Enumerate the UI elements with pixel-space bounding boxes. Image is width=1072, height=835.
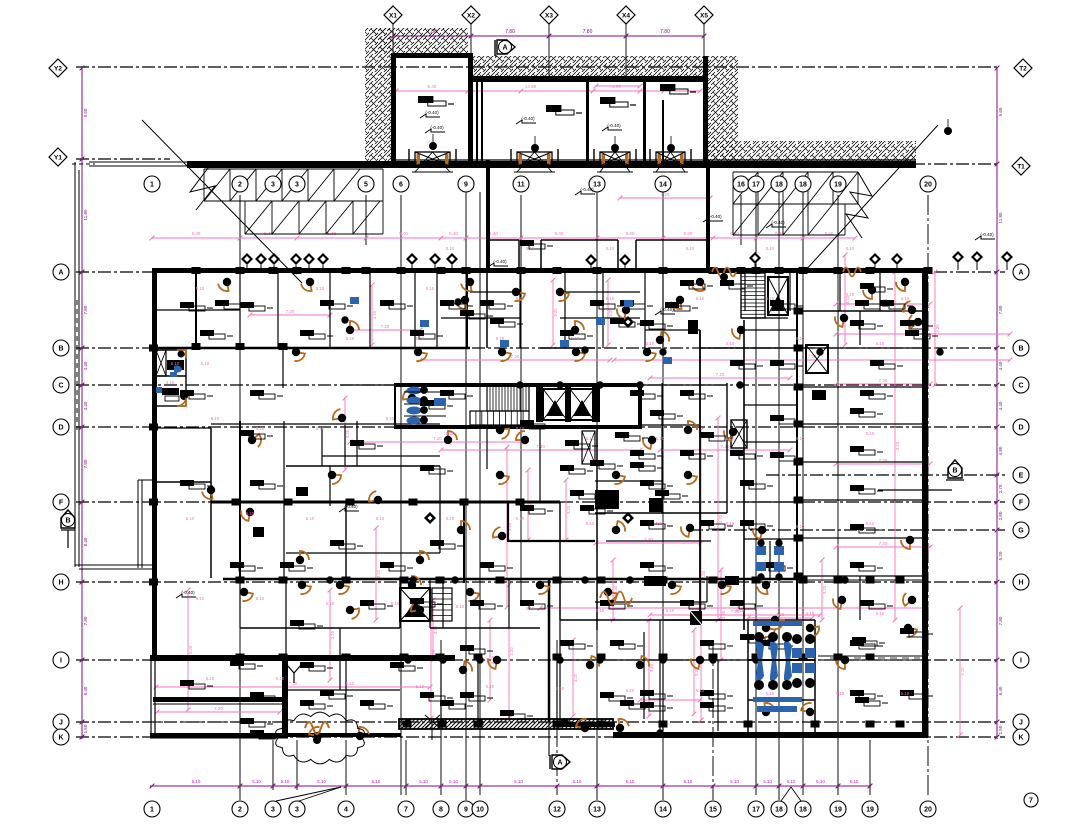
grid line E	[766, 474, 1005, 476]
grid line col 19b	[869, 740, 871, 795]
svg-text:(-0.40): (-0.40)	[708, 214, 722, 219]
dimension pink annex	[396, 90, 700, 92]
closet block 1	[595, 490, 619, 509]
svg-text:B: B	[58, 345, 63, 352]
orange double door pair H corridor	[600, 592, 632, 605]
svg-text:4: 4	[344, 806, 348, 813]
annex partition x587	[586, 82, 589, 162]
svg-text:5.10: 5.10	[586, 436, 595, 441]
junction dots	[455, 299, 461, 305]
annex window 1	[415, 152, 450, 166]
svg-text:9: 9	[464, 806, 468, 813]
grid diamonds left	[49, 59, 67, 77]
svg-text:5.10: 5.10	[386, 416, 395, 421]
annex partition x478 double	[476, 80, 478, 162]
svg-text:5.10: 5.10	[211, 416, 220, 421]
annex furniture 2	[546, 105, 561, 112]
elevator mid-right	[806, 345, 828, 373]
svg-text:2.70: 2.70	[998, 484, 1003, 493]
canopy truss right upper	[733, 171, 858, 173]
svg-text:A: A	[502, 45, 507, 52]
svg-text:(-0.40): (-0.40)	[493, 259, 507, 264]
svg-text:5.10: 5.10	[876, 611, 885, 616]
svg-text:6: 6	[399, 181, 403, 188]
dimension pink upper	[152, 237, 855, 239]
svg-text:5.10: 5.10	[449, 779, 458, 784]
svg-text:5.10: 5.10	[763, 779, 772, 784]
hatch band above annex rooms	[470, 56, 708, 80]
grid line A	[76, 271, 1005, 273]
grid bubbles right column	[1013, 264, 1029, 280]
svg-text:5.10: 5.10	[416, 336, 425, 341]
svg-text:4.40: 4.40	[83, 361, 88, 370]
door arcs	[218, 282, 229, 291]
svg-text:5.10: 5.10	[656, 436, 665, 441]
svg-text:9.60: 9.60	[998, 107, 1003, 116]
annex furniture 4	[660, 84, 675, 91]
svg-text:T2: T2	[1019, 66, 1027, 73]
svg-text:5.10: 5.10	[346, 681, 355, 686]
canopy truss right lower	[733, 203, 845, 205]
svg-text:5.10: 5.10	[496, 336, 505, 341]
annex partition x644	[643, 82, 646, 162]
svg-text:17: 17	[752, 181, 760, 188]
svg-text:5.10: 5.10	[196, 286, 205, 291]
section marker A top	[497, 40, 515, 54]
core top wall	[395, 383, 642, 387]
grid line col 17	[755, 192, 757, 795]
svg-text:1.50: 1.50	[998, 725, 1003, 734]
dimension pink interior verticals	[187, 590, 189, 710]
notch outline 1	[490, 239, 519, 241]
svg-text:5.10: 5.10	[372, 779, 381, 784]
svg-text:5.10: 5.10	[766, 246, 775, 251]
svg-text:5.10: 5.10	[516, 516, 525, 521]
svg-text:2.80: 2.80	[998, 511, 1003, 520]
svg-text:5.10: 5.10	[836, 691, 845, 696]
svg-text:5.40: 5.40	[684, 231, 693, 236]
svg-text:5.10: 5.10	[556, 686, 565, 691]
svg-text:2: 2	[238, 181, 242, 188]
svg-text:Y1: Y1	[54, 155, 62, 162]
toilet pair right wing	[756, 546, 766, 555]
interior vertical walls	[195, 272, 197, 348]
lower-left block left wall	[150, 655, 152, 738]
svg-text:19: 19	[834, 181, 842, 188]
svg-text:4.40: 4.40	[998, 361, 1003, 370]
grid line I	[76, 659, 1005, 661]
hatch band left of annex	[365, 28, 392, 162]
svg-text:B: B	[952, 468, 957, 475]
toilet block center	[407, 387, 422, 395]
notch outline 2	[541, 239, 618, 241]
svg-text:7.20: 7.20	[776, 612, 785, 617]
svg-text:5.10: 5.10	[571, 336, 580, 341]
canopy break mark left	[190, 168, 215, 210]
svg-text:5.10: 5.10	[736, 608, 745, 613]
svg-text:5.10: 5.10	[346, 336, 355, 341]
svg-text:5.10: 5.10	[276, 676, 285, 681]
svg-text:3.20: 3.20	[573, 673, 578, 682]
svg-text:F: F	[59, 499, 64, 506]
svg-text:19: 19	[866, 806, 874, 813]
svg-text:7.80: 7.80	[505, 29, 515, 35]
grid diamonds right	[1014, 59, 1032, 77]
closet block 7	[725, 576, 739, 585]
svg-text:5.10: 5.10	[516, 296, 525, 301]
annex window dots	[430, 143, 437, 150]
svg-text:5.10: 5.10	[526, 606, 535, 611]
svg-text:3.10: 3.10	[166, 380, 175, 385]
svg-text:20: 20	[924, 806, 932, 813]
bottom wall x282-399	[280, 733, 401, 737]
svg-text:3.20: 3.20	[822, 585, 827, 594]
orange window wall A right2	[843, 268, 861, 277]
svg-text:5.10: 5.10	[866, 431, 875, 436]
grid line H	[76, 581, 1005, 583]
svg-text:5.40: 5.40	[192, 231, 201, 236]
grid line T1 left	[76, 158, 170, 160]
closet block 3	[644, 576, 666, 586]
svg-text:C: C	[1018, 382, 1023, 389]
grid line col 3	[272, 740, 274, 790]
canopy truss left upper	[204, 168, 383, 170]
svg-text:5.10: 5.10	[316, 286, 325, 291]
svg-text:5.10: 5.10	[666, 608, 675, 613]
grid line col 20	[927, 195, 929, 795]
svg-text:X3: X3	[545, 13, 553, 20]
annex sill line	[396, 159, 916, 161]
wall core x640	[638, 383, 642, 429]
svg-text:X1: X1	[389, 13, 397, 20]
svg-text:(-0.40): (-0.40)	[425, 110, 439, 115]
svg-text:1: 1	[150, 806, 154, 813]
grid line col 3b	[296, 740, 298, 790]
wall I line	[150, 655, 455, 661]
svg-text:5.10: 5.10	[446, 516, 455, 521]
wall left x152	[152, 268, 157, 660]
svg-text:5.10: 5.10	[246, 511, 255, 516]
svg-text:15: 15	[709, 806, 717, 813]
svg-text:17: 17	[752, 806, 760, 813]
closet block 5	[296, 487, 308, 496]
svg-text:D: D	[58, 424, 63, 431]
dimension pink interior horizontals	[614, 359, 1010, 361]
svg-text:7.20: 7.20	[381, 324, 390, 329]
grid line T2	[76, 66, 1000, 68]
svg-text:(-0.40): (-0.40)	[521, 116, 535, 121]
annex partition x664	[662, 100, 664, 162]
grid line K	[76, 736, 1005, 738]
svg-text:7.80: 7.80	[583, 29, 593, 35]
property double line vertical	[74, 162, 76, 567]
svg-text:5.10: 5.10	[326, 601, 335, 606]
svg-text:5.10: 5.10	[486, 684, 495, 689]
section marker B right	[948, 460, 962, 478]
stair main treads	[487, 385, 529, 411]
svg-text:18: 18	[775, 181, 783, 188]
svg-text:(-0.40): (-0.40)	[344, 504, 358, 509]
svg-text:5.10: 5.10	[192, 779, 201, 784]
svg-text:7.80: 7.80	[83, 459, 88, 468]
wall J step right	[560, 722, 615, 727]
svg-text:5.20: 5.20	[998, 551, 1003, 560]
svg-text:3.20: 3.20	[553, 308, 558, 317]
furniture symbols	[215, 300, 229, 306]
svg-text:5.10: 5.10	[806, 611, 815, 616]
toilet block left	[155, 350, 186, 406]
hatch band right of annex	[706, 56, 738, 162]
svg-text:1: 1	[150, 181, 154, 188]
svg-text:5.10: 5.10	[171, 361, 180, 366]
annex window 2	[517, 152, 552, 166]
lower-left block bottom wall	[150, 733, 288, 739]
svg-text:5.10: 5.10	[726, 521, 735, 526]
svg-text:(-0.40): (-0.40)	[607, 123, 621, 128]
svg-text:5.10: 5.10	[796, 436, 805, 441]
grid line col 10	[479, 192, 481, 795]
svg-text:3.20: 3.20	[376, 569, 381, 578]
grid line col 16	[740, 195, 742, 245]
svg-text:5: 5	[364, 181, 368, 188]
svg-text:20: 20	[924, 181, 932, 188]
elevator core 1	[543, 389, 567, 420]
svg-text:7.20: 7.20	[879, 378, 888, 383]
svg-text:14: 14	[659, 806, 667, 813]
grid stem X1	[392, 22, 394, 56]
svg-text:K: K	[1018, 734, 1023, 741]
grid line col 4	[345, 740, 347, 795]
svg-text:K: K	[58, 734, 63, 741]
svg-text:5.10: 5.10	[901, 296, 910, 301]
wall right x922	[922, 272, 928, 737]
svg-text:5.10: 5.10	[816, 779, 825, 784]
svg-text:H: H	[1018, 579, 1023, 586]
grid line G	[690, 529, 1005, 531]
svg-text:5.10: 5.10	[514, 779, 523, 784]
svg-text:3.20: 3.20	[188, 645, 193, 654]
svg-text:C: C	[58, 382, 63, 389]
svg-text:5.10: 5.10	[606, 296, 615, 301]
grid line F	[76, 501, 1005, 503]
svg-text:5.10: 5.10	[696, 296, 705, 301]
grid bubbles left column	[53, 264, 69, 280]
small blue fixtures	[350, 297, 359, 304]
svg-text:5.10: 5.10	[656, 521, 665, 526]
svg-text:(-0.40): (-0.40)	[430, 125, 444, 130]
svg-text:5.10: 5.10	[573, 779, 582, 784]
svg-text:7.80: 7.80	[998, 616, 1003, 625]
svg-text:18: 18	[775, 806, 783, 813]
dimension left purple	[81, 68, 83, 739]
wall x708 annex to A	[706, 160, 710, 272]
svg-text:3: 3	[271, 806, 275, 813]
closet block 4	[253, 527, 264, 537]
hatch band above annex-left-room	[373, 28, 468, 53]
annex left room right wall	[468, 53, 473, 162]
closet block 2	[649, 498, 662, 512]
svg-text:9.60: 9.60	[83, 108, 88, 117]
svg-text:4.40: 4.40	[998, 401, 1003, 410]
dimension bottom purple	[150, 785, 871, 787]
svg-text:1.50: 1.50	[83, 724, 88, 733]
diamond markers row A	[241, 253, 253, 265]
svg-text:(-0.40): (-0.40)	[580, 187, 594, 192]
grid diamonds top	[384, 6, 402, 24]
svg-text:F: F	[1019, 499, 1024, 506]
svg-text:5.10: 5.10	[596, 608, 605, 613]
svg-text:5.10: 5.10	[526, 246, 535, 251]
svg-text:3.20: 3.20	[433, 625, 438, 634]
interior horizontal walls	[152, 347, 470, 350]
svg-text:5.10: 5.10	[846, 292, 855, 297]
shaft x582	[582, 431, 595, 464]
small shaft x735 D	[731, 420, 747, 448]
wall Y1 top main thick	[187, 161, 916, 168]
grid line col 5	[365, 195, 367, 245]
grid line col 15	[712, 640, 714, 800]
svg-text:7.20: 7.20	[661, 192, 670, 197]
canopy truss left lower	[245, 200, 383, 202]
svg-text:X5: X5	[700, 13, 708, 20]
wall x487 annex to A	[486, 160, 490, 272]
svg-text:5.10: 5.10	[317, 779, 326, 784]
svg-text:5.10: 5.10	[796, 524, 805, 529]
svg-text:5.10: 5.10	[726, 341, 735, 346]
svg-text:4.40: 4.40	[83, 401, 88, 410]
svg-text:19: 19	[834, 806, 842, 813]
svg-text:12: 12	[553, 806, 561, 813]
svg-text:3.20: 3.20	[721, 610, 726, 619]
svg-text:5.10: 5.10	[281, 779, 290, 784]
svg-text:7.80: 7.80	[660, 29, 670, 35]
svg-text:5.10: 5.10	[730, 779, 739, 784]
annex left room left wall	[391, 53, 396, 162]
annex top wall under hatch	[473, 76, 708, 82]
lower-left block right wall	[282, 655, 288, 738]
svg-text:5.10: 5.10	[391, 601, 400, 606]
canopy break mark right	[846, 172, 872, 238]
elevator right-top	[768, 277, 788, 315]
svg-text:5.10: 5.10	[796, 336, 805, 341]
grid line col 13	[596, 192, 598, 800]
lower-left block mid wall	[153, 697, 282, 702]
grid bubbles top row	[144, 176, 160, 192]
svg-text:3.20: 3.20	[330, 630, 335, 639]
svg-text:7.20: 7.20	[721, 444, 730, 449]
svg-text:5.10: 5.10	[901, 691, 910, 696]
svg-text:3.20: 3.20	[935, 324, 940, 333]
svg-text:7.80: 7.80	[83, 616, 88, 625]
svg-text:3.20: 3.20	[345, 429, 350, 438]
svg-text:7.20: 7.20	[511, 354, 520, 359]
core bottom wall	[395, 425, 642, 429]
svg-text:6.40: 6.40	[83, 686, 88, 695]
svg-text:5.10: 5.10	[446, 431, 455, 436]
svg-text:T1: T1	[1017, 164, 1025, 171]
svg-text:9: 9	[464, 181, 468, 188]
cloud M symbol	[305, 722, 329, 734]
svg-text:13: 13	[593, 806, 601, 813]
svg-text:(-0.40): (-0.40)	[181, 590, 195, 595]
grid line col 9	[465, 192, 467, 800]
svg-text:B: B	[1018, 345, 1023, 352]
grid line col 11	[520, 195, 522, 600]
svg-text:A: A	[1018, 269, 1023, 276]
svg-text:7.20: 7.20	[879, 541, 888, 546]
grid line col 19	[837, 195, 839, 795]
grid line D	[76, 426, 1005, 428]
grid line col 12	[556, 640, 558, 795]
grid line J	[76, 721, 1005, 723]
grid line col 7	[405, 740, 407, 795]
svg-text:H: H	[58, 579, 63, 586]
svg-text:5.10: 5.10	[696, 688, 705, 693]
elevator separator walls	[536, 387, 543, 422]
svg-text:5.10: 5.10	[626, 779, 635, 784]
svg-text:7.80: 7.80	[998, 305, 1003, 314]
svg-text:5.10: 5.10	[316, 426, 325, 431]
annex right wall	[703, 56, 708, 162]
dimension right purple	[996, 68, 998, 739]
svg-text:10: 10	[476, 806, 484, 813]
svg-text:3: 3	[271, 181, 275, 188]
svg-text:11.80: 11.80	[998, 212, 1003, 223]
svg-text:7.20: 7.20	[289, 681, 298, 686]
svg-text:A: A	[557, 760, 562, 767]
orange window wall A right	[712, 268, 736, 277]
svg-text:D: D	[1018, 424, 1023, 431]
svg-text:5.10: 5.10	[206, 676, 215, 681]
svg-text:5.10: 5.10	[376, 516, 385, 521]
svg-text:8.40: 8.40	[83, 537, 88, 546]
svg-text:5.10: 5.10	[846, 246, 855, 251]
svg-text:7.20: 7.20	[214, 706, 223, 711]
long diagonal right	[804, 125, 938, 272]
svg-text:8: 8	[439, 806, 443, 813]
svg-text:3.20: 3.20	[960, 667, 965, 676]
annex window 4	[656, 152, 685, 166]
svg-text:A: A	[58, 269, 63, 276]
svg-text:5.10: 5.10	[586, 521, 595, 526]
svg-text:7: 7	[404, 806, 408, 813]
level marks	[425, 129, 445, 133]
lone circle 7 bottom right	[1024, 793, 1038, 807]
svg-text:7.20: 7.20	[286, 309, 295, 314]
svg-text:J: J	[1019, 719, 1023, 726]
grid bubbles bottom row	[144, 801, 160, 817]
svg-text:5.10: 5.10	[256, 426, 265, 431]
grid line col 14	[662, 192, 664, 800]
svg-text:5.10: 5.10	[456, 604, 465, 609]
dimension top purple	[393, 35, 704, 37]
elevator lower-left	[400, 588, 430, 621]
grid stem X3	[548, 22, 550, 80]
closet block 8	[812, 390, 826, 400]
stair main lower	[470, 411, 529, 425]
svg-text:5.10: 5.10	[866, 521, 875, 526]
section marker A bottom	[552, 755, 570, 769]
svg-text:5.10: 5.10	[426, 286, 435, 291]
grid stem X5	[703, 22, 705, 80]
column blocks	[192, 267, 201, 274]
svg-text:5.40: 5.40	[555, 231, 564, 236]
svg-text:5.10: 5.10	[626, 688, 635, 693]
svg-text:11.80: 11.80	[83, 209, 88, 220]
bottom wall x613-928	[613, 732, 928, 738]
svg-text:5.10: 5.10	[419, 779, 428, 784]
svg-text:5.40: 5.40	[428, 84, 437, 89]
